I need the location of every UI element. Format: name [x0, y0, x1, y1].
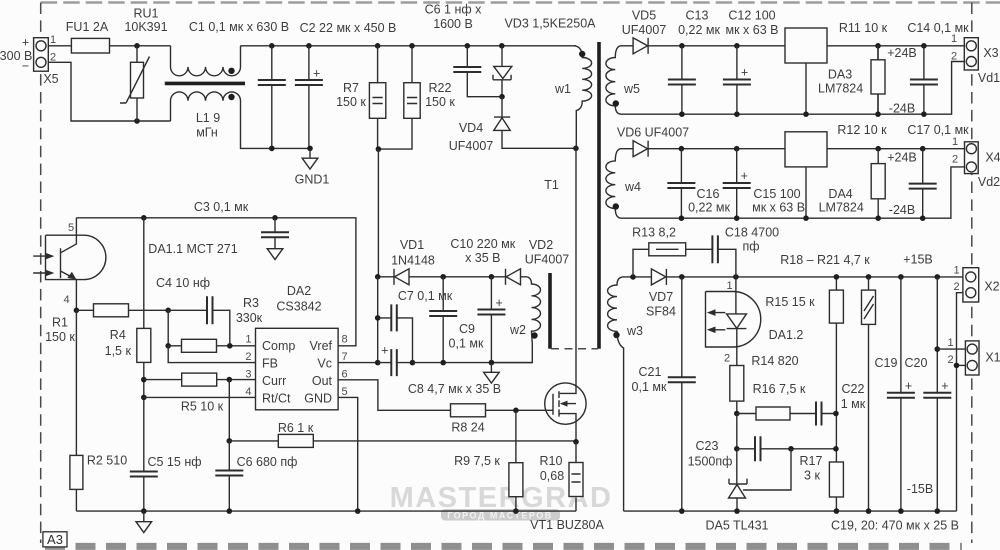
- wire output2 minus bus: [621, 167, 965, 218]
- svg-text:DA4: DA4: [828, 187, 852, 201]
- junction C7 C8 right: [410, 360, 416, 366]
- svg-text:X3: X3: [983, 46, 998, 60]
- svg-text:R4: R4: [110, 328, 126, 342]
- sheet label A3: [43, 532, 67, 547]
- svg-text:330к: 330к: [236, 311, 263, 325]
- wire DA3 out bus: [827, 45, 964, 47]
- junction R7 top: [375, 43, 381, 49]
- wire Vref-bus down to R4: [143, 218, 145, 329]
- wire X1 pin2: [957, 364, 966, 366]
- wire w5 top to VD5: [621, 45, 633, 47]
- capacitor C6 1600V plates: [453, 67, 481, 72]
- resistor R11: [877, 46, 879, 114]
- svg-text:C4 10 нф: C4 10 нф: [156, 276, 210, 290]
- junction Vc row left: [375, 360, 381, 366]
- wire X2 pin2 to common: [957, 293, 963, 511]
- resistor R16: [756, 407, 790, 420]
- capacitor C16: [680, 149, 682, 219]
- wire R6 row to source: [229, 440, 576, 442]
- svg-text:w4: w4: [624, 180, 641, 194]
- svg-text:+: +: [381, 344, 388, 358]
- transformer T1 aux winding w2: [491, 277, 540, 363]
- capacitor C6: [228, 441, 230, 511]
- optocoupler DA1.2 light arrows: [714, 313, 725, 330]
- svg-text:C15 100: C15 100: [753, 187, 800, 201]
- capacitor C2: [308, 46, 310, 149]
- junction C14 top: [921, 43, 927, 49]
- junction X1 branch bus: [935, 274, 941, 280]
- junction C23 left: [734, 446, 740, 452]
- ground primary rail symbol: [136, 522, 152, 533]
- shunt regulator DA5 TL431: [736, 449, 738, 484]
- svg-text:300 В: 300 В: [0, 49, 32, 63]
- optocoupler DA1.1 light arrows: [33, 256, 45, 273]
- svg-text:SF84: SF84: [646, 305, 676, 319]
- wire X5 pin1 to fuse and RU1: [48, 45, 170, 47]
- TVS diode VD3: [501, 46, 503, 67]
- svg-text:Rt/Ct: Rt/Ct: [262, 392, 291, 406]
- resistor R14: [730, 366, 744, 402]
- svg-text:0,1 мк: 0,1 мк: [632, 380, 667, 394]
- capacitor C20 plates: [923, 379, 951, 398]
- wire FB pin row: [168, 346, 255, 363]
- junction R12 bottom: [875, 215, 881, 221]
- junction C16 bottom: [679, 215, 685, 221]
- resistor R5: [182, 373, 217, 386]
- transformer T1 core link dashed: [551, 348, 598, 350]
- resistor R22: [378, 46, 412, 149]
- resistor R15: [829, 290, 843, 323]
- svg-text:+: +: [313, 67, 320, 81]
- svg-text:+: +: [905, 379, 912, 393]
- capacitor C13: [681, 46, 683, 114]
- diode VD2: [506, 269, 521, 285]
- capacitor C3 plates: [261, 232, 289, 237]
- junction R15 bus: [834, 274, 840, 280]
- svg-text:1 мк: 1 мк: [841, 397, 866, 411]
- wire R8 to gate: [486, 409, 554, 411]
- IC DA2 CS3842 box: [256, 328, 339, 410]
- svg-text:1: 1: [947, 337, 953, 349]
- capacitor C12 plates: [723, 66, 751, 85]
- transformer T1 w2 core: [548, 273, 552, 349]
- connector X5 body: [34, 38, 49, 71]
- connector X2 body: [963, 268, 979, 302]
- junction R18 bus: [866, 274, 872, 280]
- junction C21 top: [679, 274, 685, 280]
- svg-text:1: 1: [245, 334, 251, 346]
- wire ref line: [743, 449, 791, 490]
- junction RU1 top: [134, 43, 140, 49]
- capacitor C10 plates: [477, 296, 505, 315]
- capacitor C17 plates: [909, 184, 937, 189]
- optocoupler DA1.2 body: [706, 292, 761, 348]
- svg-text:+: +: [496, 296, 503, 310]
- frame border bottom thick: [45, 543, 962, 550]
- svg-text:4: 4: [63, 294, 69, 306]
- junction Comp pin node: [227, 343, 233, 349]
- svg-text:DA3: DA3: [828, 68, 852, 82]
- capacitor C9 plates: [429, 311, 457, 316]
- junction R11 top: [875, 43, 881, 49]
- svg-text:C10 220 мк: C10 220 мк: [450, 237, 515, 251]
- svg-text:C9: C9: [459, 322, 475, 336]
- svg-text:Curr: Curr: [262, 374, 286, 388]
- wire FB node vertical: [167, 310, 169, 346]
- IC DA4 LM7824 box: [785, 132, 827, 167]
- svg-text:w1: w1: [554, 82, 571, 96]
- connector X1 body: [965, 341, 979, 375]
- junction C9 bottom: [440, 360, 446, 366]
- resistor R7: [377, 46, 379, 149]
- capacitor C6 plates: [215, 471, 243, 476]
- svg-text:VD1: VD1: [400, 238, 424, 252]
- svg-text:2: 2: [953, 281, 959, 293]
- connector X4 body: [965, 142, 979, 174]
- capacitor C17: [922, 149, 924, 219]
- optocoupler DA1.1 body: [46, 235, 106, 279]
- junction R4 R5 row: [141, 377, 147, 383]
- svg-text:1: 1: [951, 33, 957, 45]
- frame border top: [41, 1, 1000, 3]
- junction C15 top: [734, 146, 740, 152]
- transformer T1 secondary winding w5: [606, 46, 621, 114]
- svg-text:R14 820: R14 820: [751, 354, 798, 368]
- svg-text:w5: w5: [623, 82, 640, 96]
- junction rail C19: [898, 508, 904, 514]
- wire primary ground rail: [76, 510, 576, 512]
- svg-text:w2: w2: [509, 323, 526, 337]
- svg-text:x 35 В: x 35 В: [465, 251, 500, 265]
- svg-text:X4: X4: [985, 150, 1000, 164]
- resistor R11: [877, 46, 879, 114]
- svg-text:R2 510: R2 510: [87, 454, 127, 468]
- svg-text:VD4: VD4: [459, 121, 483, 135]
- ground below C10: [484, 372, 500, 383]
- wire C8 row: [378, 362, 413, 364]
- svg-text:X2: X2: [984, 280, 999, 294]
- junction C6 R6: [227, 438, 233, 444]
- capacitor C14 plates: [910, 80, 938, 85]
- svg-text:L1 9: L1 9: [196, 111, 220, 125]
- wire R1 to FB node: [129, 309, 169, 311]
- svg-text:GND: GND: [304, 392, 332, 406]
- wire C7 row: [378, 318, 413, 363]
- svg-text:5: 5: [68, 222, 74, 234]
- wire R2 to ground rail: [75, 489, 77, 511]
- svg-text:Vc: Vc: [317, 357, 332, 371]
- junction R22 top: [409, 43, 415, 49]
- svg-text:R17: R17: [800, 454, 823, 468]
- junction C1 bottom: [269, 146, 275, 152]
- svg-text:R11 10 к: R11 10 к: [839, 21, 888, 35]
- frame border left: [40, 3, 42, 544]
- junction C7 row left: [375, 315, 381, 321]
- capacitor C1 plates: [258, 80, 286, 85]
- capacitor C9: [442, 277, 444, 363]
- svg-text:мГн: мГн: [196, 126, 218, 140]
- junction VD1 cathode startup: [375, 274, 381, 280]
- svg-text:VD3 1,5KE250A: VD3 1,5KE250A: [504, 17, 596, 31]
- svg-text:X5: X5: [43, 72, 58, 86]
- junction R17 top: [833, 446, 839, 452]
- svg-text:мк x 63 В: мк x 63 В: [726, 23, 779, 37]
- svg-text:T1: T1: [544, 178, 559, 192]
- junction rail TL431: [734, 508, 740, 514]
- junction C17 bottom: [920, 215, 926, 221]
- svg-text:0,22 мк: 0,22 мк: [678, 23, 720, 37]
- resistor R2: [70, 455, 83, 489]
- junction rail DA2gnd: [355, 508, 361, 514]
- svg-text:1: 1: [726, 280, 732, 292]
- transformer T1 primary winding w1: [574, 46, 592, 149]
- wire R4 bottom node: [143, 362, 145, 511]
- wire plus15 bus: [666, 276, 963, 278]
- capacitor C8: [381, 344, 397, 377]
- svg-text:Vd1: Vd1: [978, 71, 1000, 85]
- svg-text:-15В: -15В: [907, 482, 933, 496]
- wire DA2 GND pin down: [338, 397, 358, 511]
- svg-text:FB: FB: [262, 357, 278, 371]
- junction source R10: [573, 439, 579, 445]
- junction C1 top: [269, 43, 275, 49]
- svg-text:1: 1: [952, 136, 958, 148]
- junction RU1 bottom: [134, 118, 140, 124]
- capacitor C19 plates: [887, 379, 915, 398]
- junction C12 bottom: [734, 111, 740, 117]
- svg-text:UF4007: UF4007: [449, 139, 494, 153]
- capacitor C18: [712, 235, 718, 263]
- svg-text:C7 0,1 мк: C7 0,1 мк: [398, 289, 453, 303]
- junction rail R18-21: [866, 508, 872, 514]
- svg-text:C19: C19: [875, 356, 898, 370]
- svg-text:R7: R7: [343, 81, 359, 95]
- wire mains top bus: [241, 45, 577, 47]
- wire opto emitter to R1: [76, 309, 93, 311]
- wire VD1 anode to C9 C10 VD2: [409, 276, 506, 278]
- junction opto emitter R1: [74, 308, 80, 314]
- svg-text:150 к: 150 к: [45, 330, 75, 344]
- wire R14 to fb node: [736, 401, 738, 413]
- svg-text:R16 7,5 к: R16 7,5 к: [753, 382, 806, 396]
- capacitor C21: [681, 277, 683, 511]
- svg-text:C13: C13: [686, 9, 709, 23]
- svg-text:-24В: -24В: [889, 203, 915, 217]
- junction VD3 VD4 C6hv: [499, 94, 505, 100]
- svg-text:A3: A3: [47, 532, 63, 547]
- wire DA4 gnd pin: [805, 167, 807, 218]
- ground below C3: [267, 249, 283, 260]
- svg-text:VD7: VD7: [649, 290, 673, 304]
- wire Vc pin to node: [338, 362, 378, 364]
- capacitor C21 plates: [668, 377, 696, 382]
- junction C10 bottom gnd: [489, 360, 495, 366]
- junction C4 branch on Vref bus: [141, 215, 147, 221]
- junction R4 RtCt row: [141, 395, 147, 401]
- junction R7 R22 bottoms: [376, 146, 382, 152]
- junction C22 right: [833, 411, 839, 417]
- wire X5 pin2 lower run: [48, 62, 170, 121]
- svg-text:8: 8: [342, 334, 348, 346]
- wire R10 branch: [575, 442, 577, 511]
- svg-text:2: 2: [245, 351, 251, 363]
- inductor L1 upper winding: [171, 46, 241, 76]
- ground GND1 symbol: [302, 158, 318, 169]
- svg-text:C22: C22: [842, 382, 865, 396]
- junction C9 top: [440, 274, 446, 280]
- svg-text:R8 24: R8 24: [451, 421, 484, 435]
- junction C14 bottom: [921, 111, 927, 117]
- svg-text:R15 15 к: R15 15 к: [765, 295, 815, 309]
- capacitor C14: [923, 46, 925, 114]
- wire VD6 to DA4: [648, 148, 785, 150]
- wire w3 top to VD7: [623, 276, 651, 278]
- transformer T1 secondary winding w3: [608, 277, 624, 511]
- transformer T1 secondary winding w4: [606, 149, 621, 219]
- capacitor C6 1600V: [467, 46, 502, 97]
- varistor RU1: [136, 46, 138, 121]
- junction C10 top: [489, 274, 495, 280]
- wire gnd stub primary: [143, 511, 145, 522]
- wire aux ground row: [413, 362, 533, 364]
- diode VD4: [501, 97, 503, 117]
- svg-text:R9 7,5 к: R9 7,5 к: [454, 454, 500, 468]
- junction C23 right: [788, 446, 794, 452]
- svg-text:+24В: +24В: [887, 150, 917, 164]
- svg-text:C6 1 нф x: C6 1 нф x: [425, 3, 483, 17]
- junction C12 top: [734, 43, 740, 49]
- junction X1 pin1: [935, 346, 941, 352]
- svg-text:DA1.1 MCT 271: DA1.1 MCT 271: [148, 242, 237, 256]
- IC DA3 LM7824 box: [785, 28, 827, 63]
- transformer T1 main core: [597, 42, 601, 349]
- wire R3 row: [168, 345, 255, 347]
- svg-text:R12 10 к: R12 10 к: [837, 123, 887, 137]
- frame border right: [971, 3, 973, 544]
- junction DA1.2 C18 node: [733, 274, 739, 280]
- svg-text:C5 15 нф: C5 15 нф: [147, 455, 201, 469]
- junction rail C21: [679, 508, 685, 514]
- wire C4 row: [168, 310, 230, 346]
- diode VD7: [651, 269, 666, 285]
- capacitor C13 plates: [668, 80, 696, 85]
- resistor R4: [137, 328, 151, 362]
- inductor L1 core bar: [165, 82, 245, 86]
- svg-text:1500пф: 1500пф: [688, 455, 733, 469]
- svg-text:C19, 20: 470 мк x 25 В: C19, 20: 470 мк x 25 В: [831, 519, 959, 533]
- svg-text:0,1 мк: 0,1 мк: [449, 337, 484, 351]
- resistor R8: [451, 404, 486, 417]
- svg-text:R18 – R21 4,7 к: R18 – R21 4,7 к: [780, 253, 870, 267]
- fuse FU1: [71, 38, 109, 53]
- resistor R1: [94, 304, 129, 317]
- junction R12 top: [875, 146, 881, 152]
- svg-text:150 к: 150 к: [336, 95, 366, 109]
- svg-text:150 к: 150 к: [425, 95, 455, 109]
- resistor R6: [278, 434, 313, 447]
- svg-text:+: +: [22, 36, 29, 50]
- svg-text:10K391: 10K391: [124, 20, 167, 34]
- wire DA4 out bus: [827, 148, 965, 150]
- svg-text:C2 22 мк x 450 В: C2 22 мк x 450 В: [300, 21, 397, 35]
- junction R5 Curr pin: [227, 377, 233, 383]
- resistor R3: [182, 339, 217, 352]
- svg-text:+: +: [741, 66, 748, 80]
- svg-text:DA1.2: DA1.2: [769, 328, 804, 342]
- resistor R9: [509, 463, 523, 497]
- junction R13 branch: [630, 274, 636, 280]
- svg-text:Vd2: Vd2: [978, 175, 1000, 189]
- resistor R18-R21: [862, 290, 876, 324]
- svg-text:VT1 BUZ80A: VT1 BUZ80A: [530, 518, 604, 532]
- connector X3 body: [964, 38, 978, 70]
- junction C13 top: [679, 43, 685, 49]
- wire R13 C18 snubber: [633, 249, 736, 277]
- capacitor C12: [736, 46, 738, 114]
- wire R9 branch: [515, 410, 517, 511]
- capacitor C10: [490, 277, 492, 363]
- svg-text:+24В: +24В: [887, 46, 917, 60]
- svg-text:C21: C21: [639, 365, 662, 379]
- junction FB C4 top: [165, 308, 171, 314]
- svg-text:мк x 63 В: мк x 63 В: [752, 201, 805, 215]
- wire aux top line: [378, 276, 394, 278]
- junction C13 bottom: [679, 111, 685, 117]
- svg-text:5: 5: [342, 386, 348, 398]
- wire w4 top to VD6: [621, 148, 633, 150]
- svg-text:R10: R10: [540, 454, 563, 468]
- svg-text:R13 8,2: R13 8,2: [632, 226, 676, 240]
- svg-text:Vref: Vref: [310, 339, 333, 353]
- capacitor C22: [816, 402, 822, 426]
- svg-text:C17 0,1 мк: C17 0,1 мк: [907, 123, 969, 137]
- svg-text:0,22 мк: 0,22 мк: [688, 201, 730, 215]
- svg-text:3 к: 3 к: [804, 469, 820, 483]
- capacitor C23: [755, 436, 761, 461]
- svg-text:2: 2: [947, 354, 953, 366]
- svg-text:1: 1: [50, 34, 56, 46]
- junction C15 bottom: [734, 215, 740, 221]
- svg-text:VD6 UF4007: VD6 UF4007: [617, 126, 689, 140]
- junction X1 pin2 common: [954, 363, 960, 369]
- wire startup feed down to VD1 node: [377, 149, 379, 277]
- optocoupler DA1.1 phototransistor: [61, 218, 77, 310]
- svg-text:+15В: +15В: [903, 253, 933, 267]
- wire Out pin to R8: [338, 380, 450, 411]
- svg-text:-24В: -24В: [889, 102, 915, 116]
- wire GND1 stub: [309, 148, 311, 158]
- junction C16 top: [679, 146, 685, 152]
- junction rail R9: [513, 508, 519, 514]
- svg-text:пф: пф: [742, 240, 759, 254]
- svg-text:C3 0,1 мк: C3 0,1 мк: [194, 200, 249, 214]
- svg-text:1600 В: 1600 В: [433, 17, 473, 31]
- svg-text:UF4007: UF4007: [525, 253, 570, 267]
- svg-text:C8 4,7 мк x 35 В: C8 4,7 мк x 35 В: [408, 382, 501, 396]
- junction VD3 top: [499, 43, 505, 49]
- svg-text:7: 7: [342, 351, 348, 363]
- svg-text:+: +: [741, 169, 748, 183]
- svg-text:0,68: 0,68: [540, 469, 564, 483]
- junction rail C6: [227, 508, 233, 514]
- wire RtCt row: [144, 396, 256, 398]
- svg-text:GND1: GND1: [295, 173, 330, 187]
- diode VD5: [633, 38, 648, 54]
- capacitor C1: [271, 46, 273, 149]
- wire Vref bus: [76, 218, 356, 346]
- svg-text:R6 1 к: R6 1 к: [278, 421, 314, 435]
- capacitor C15: [736, 149, 738, 219]
